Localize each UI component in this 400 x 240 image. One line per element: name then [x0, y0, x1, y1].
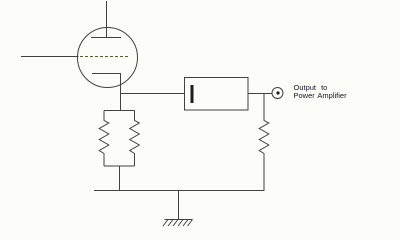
wire box to output terminal	[248, 93, 272, 95]
wire cathode lead	[120, 74, 122, 111]
wire ground bus	[94, 190, 265, 192]
wire anode lead	[106, 1, 108, 38]
resistor R1 left of cathode pair	[99, 111, 109, 167]
plate of tube	[91, 37, 121, 39]
capacitor C1 plate bar	[191, 85, 194, 103]
wire resistor pair top bus	[104, 110, 135, 112]
tube V1 envelope	[78, 28, 138, 88]
cathode of tube	[92, 73, 121, 75]
resistor R3 load	[259, 94, 269, 191]
wire ground stem	[178, 191, 180, 220]
ground symbol	[163, 220, 193, 227]
node label: Output to Power Amplifier	[294, 83, 348, 100]
svg-text:Power Amplifier: Power Amplifier	[294, 91, 348, 100]
resistor R2 right of cathode pair	[130, 111, 140, 167]
wire grid lead	[21, 56, 79, 58]
wire resistor pair bottom bus	[104, 165, 135, 167]
grid of tube (dashed)	[80, 56, 128, 58]
wire cathode to coupling box	[121, 93, 185, 95]
coupling capacitor C1 box	[185, 78, 249, 111]
output terminal center dot	[276, 91, 279, 94]
wire tail to ground bus	[119, 166, 121, 191]
output terminal circle	[272, 88, 283, 99]
